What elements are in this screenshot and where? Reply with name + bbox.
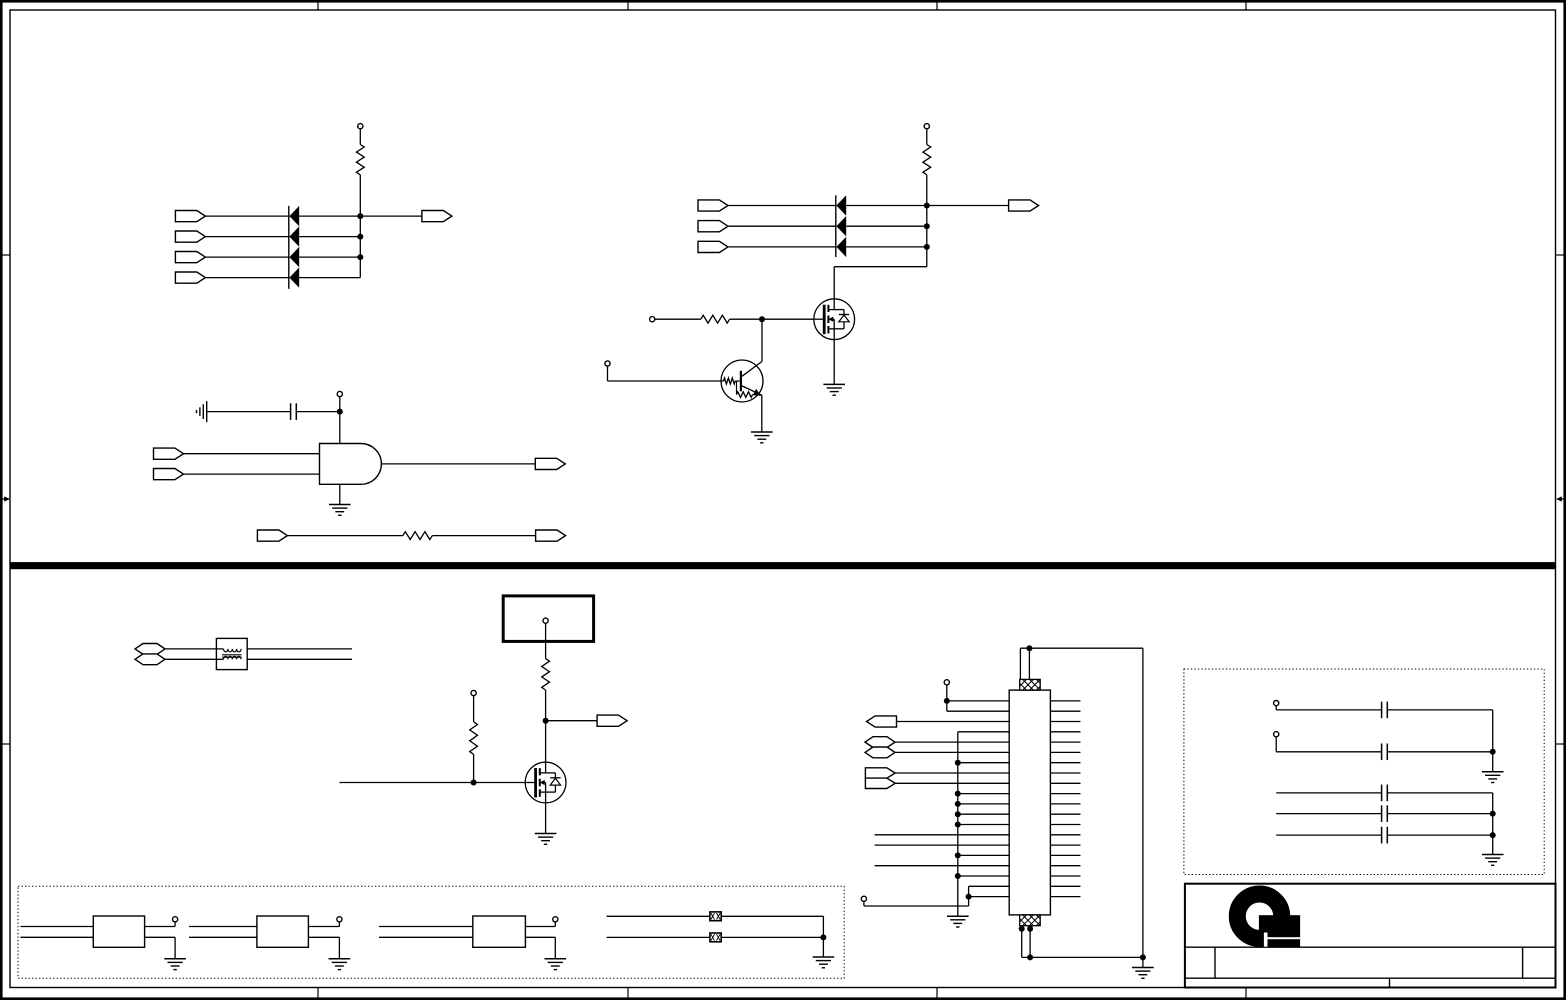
output port P9 [1009,200,1039,211]
wire gate pin to R3 [655,318,701,320]
junction bus pin7 [955,760,961,766]
wire bus to J1 pin7 [958,762,1009,764]
input port P1 [175,211,205,222]
wire bus to J1 pin4 [958,731,1009,733]
company logo [1237,894,1300,947]
wire shield bottom left lead [1021,926,1023,958]
dotted group box (caps) [1184,669,1544,875]
diode D3 [289,247,299,267]
output port P5 [422,211,452,222]
wire NET1 vertical bus [359,175,361,278]
output port P22 [865,778,895,788]
ground Q3 source [535,834,557,845]
resistor R2 power pin [924,124,929,129]
filter block FL1 [93,916,144,947]
wire C6 right [1387,834,1492,836]
wire NET2 to Q1 drain [833,267,835,299]
border zone tick left y744 [0,743,10,745]
junction C2-C3 gnd [1490,749,1496,755]
transistor Q2 (digital NPN) [721,360,763,402]
transistor Q1 (NMOS) [814,299,855,340]
wire shield right vertical [1142,648,1144,967]
pin of C3 [1274,732,1279,737]
junction shield bottom left [1019,926,1025,932]
wire U1 output [381,463,535,465]
diode D1 [289,206,299,226]
wire VCC node to U1 power [339,412,341,444]
border center arrow right [1556,496,1566,501]
input port P8 [698,241,728,252]
border zone tick top x628 [627,0,629,10]
AND gate U1 [320,444,382,485]
resistor R4 [403,532,433,540]
junction bus pin13 [955,822,961,828]
wire D1 to node NET1 [299,215,360,217]
connector J1 shield tab bottom [1009,915,1061,926]
border zone tick bottom x937 [936,988,938,1000]
junction NET2 dot 1 [924,203,930,209]
wire shield bottom right lead [1029,926,1031,958]
wire FL1 out B [145,936,176,938]
wire R5 to node NET3 [545,690,547,721]
input port P10 [154,448,184,459]
wire D4 to corner [299,277,360,279]
dotted group box (filters) [18,886,844,978]
wire Q2 base [608,380,724,382]
net tie NT2 [710,933,721,942]
wire pin1 stub [946,685,948,711]
wire NET1 to output port [360,215,422,217]
junction NT node [820,934,826,940]
capacitor C2 [1382,702,1388,719]
output port P21 [865,768,895,778]
ground FL3 [545,959,567,970]
bidirectional port P16 [135,654,165,665]
junction bus pin11 [955,801,961,807]
border zone tick top x1246 [1245,0,1247,10]
diode D6 [836,216,846,236]
input port P13 [257,530,287,541]
wire NET2 corner horizontal [834,266,927,268]
wire U1 ground pin [339,484,341,504]
pin header pin1 circle [944,680,949,685]
input port P6 [698,200,728,211]
wire FL1 out A [145,926,176,928]
ground shield [1132,968,1154,979]
wire FL2 out B [308,936,339,938]
wire P16 to L1 [165,658,224,660]
net tie NT1 [710,912,721,921]
wire bus to J1 pin10 [958,793,1009,795]
wire NT line B [607,936,824,938]
filter block FL3 [473,916,526,947]
ground C1 (rotated) [197,401,207,422]
wire signal to J1 pin17 [875,865,1010,867]
junction gate node [759,316,765,322]
wire signal to J1 pin15 [875,844,1010,846]
connector J1 shield tab top [1009,679,1061,690]
wire P7 to diode D6 [728,225,836,227]
wire VCC pin stub [339,397,341,412]
junction shield top [1026,645,1032,651]
wire Q2 base pin stub [607,366,609,381]
junction bus pin10 [955,791,961,797]
bidirectional port P15 [135,644,165,655]
wire shield top run [1020,647,1143,649]
wire FL3 to ground [554,937,556,959]
wire bus to J1 pin16 [958,854,1009,856]
wire Q3 source to ground [545,803,547,834]
wire FL3 out B [525,936,555,938]
ground C4-C6 [1482,855,1504,866]
wire C4-C6 gnd bus [1492,793,1494,855]
wire L1 out B [247,658,352,660]
junction Q3 gate node [471,780,477,786]
wire FL1 in B [21,936,94,938]
resistor R5 [542,659,550,690]
wire P8 to diode D7 [728,246,836,248]
resistor R1 power pin [358,124,363,129]
diode D7 [836,237,846,257]
wire NET2 vertical bus [926,175,928,267]
junction VCC node [337,409,343,415]
wire pin19 elbow [968,886,970,906]
wire NET3 to Q3 drain [545,721,547,762]
wire P20 to J1 [895,751,1009,753]
resistor R1 [356,145,364,175]
wire NET2 to output port [927,205,1009,207]
wire caps gnd lead [1492,752,1494,772]
junction bus pin12 [955,811,961,817]
wire pin19 to J1 [969,885,1010,887]
wire FL1 to ground [174,937,176,959]
junction NET2 dot 2 [924,223,930,229]
border zone tick top x318 [317,0,319,10]
border zone tick right y255 [1556,254,1566,256]
base input pin of Q2 [605,361,610,366]
wire C2 left [1276,709,1381,711]
wire FL2 in B [189,936,257,938]
bidirectional port P20 [865,747,895,758]
connector J1 body [1009,690,1050,915]
wire NET3 to output port [546,720,598,722]
wire shield bottom run [1022,956,1143,958]
wire C1 left lead [207,411,291,413]
wire L1 out A [247,648,352,650]
wire C5 right [1387,813,1492,815]
wire FL2 pin stub [338,922,340,927]
wire P6 to diode D5 [728,205,836,207]
ground U1 [329,505,351,516]
wire P22 to J1 [895,782,1009,784]
ground Q2 emitter [751,432,773,443]
wire shield tab right lead [1028,648,1030,679]
junction NET1 dot 1 [357,213,363,219]
wire C1 to VCC node [296,411,340,413]
gate input pin of Q1 [650,317,655,322]
border zone tick bottom x628 [627,988,629,1000]
wire GND bus [957,732,959,916]
wire FL2 in A [189,926,257,928]
pin of module M1 [543,618,548,623]
pin of C2 [1274,701,1279,706]
wire P19 to J1 [895,741,1009,743]
wire bus to J1 pin11 [958,803,1009,805]
junction shield bottom right [1027,926,1033,932]
wire C3 pin stub [1275,737,1277,752]
wire C6 left [1276,834,1381,836]
junction NET2 dot 3 [924,244,930,250]
border zone tick top x937 [936,0,938,10]
output port P14 [536,530,566,541]
ground FL1 [164,959,186,970]
junction bus pin18 [955,873,961,879]
junction pin20 [966,894,972,900]
input port P7 [698,221,728,232]
wire C3 right [1387,751,1492,753]
wire pin2 to J1 [947,710,1009,712]
diode array D5-D7 cathode bar [835,195,837,257]
filter block FL2 [257,916,309,947]
wire Q2 emitter to ground [761,395,763,432]
wire pin1 to J1 [947,700,1009,702]
input port P3 [175,252,205,263]
ground J1 bus [947,916,969,927]
wire P21 to J1 [895,772,1009,774]
wire P4 to diode D4 [205,277,289,279]
wire pin20 run [864,905,969,907]
junction bus pin16 [955,852,961,858]
wire FL2 to ground [338,937,340,959]
junction NET3 [543,718,549,724]
pin of FL3 [553,917,558,922]
wire D2 to node NET1 [299,236,360,238]
capacitor C4 [1382,785,1388,802]
pin of FL2 [337,917,342,922]
wire C4 left [1276,792,1381,794]
wire C4 right [1387,792,1492,794]
border zone tick bottom x1246 [1245,988,1247,1000]
wire M1 pin to R5 [545,623,547,658]
junction shield ground node [1140,954,1146,960]
junction pin1 [944,698,950,704]
wire NT line A [607,915,824,917]
J1 right pin stubs [1050,701,1080,897]
wire NT corner [822,916,824,937]
wire bus to J1 pin13 [958,824,1009,826]
capacitor C6 [1382,827,1388,844]
wire R6 to gate node [473,754,475,782]
diode D4 [289,267,299,287]
capacitor C1 [291,403,297,420]
wire bus to J1 pin18 [958,875,1009,877]
input port P4 [175,272,205,283]
border zone tick bottom x318 [317,988,319,1000]
wire shield tab left lead [1019,648,1021,679]
junction C5 gnd [1490,811,1496,817]
wire NT to ground [822,937,824,957]
wire P13 to R4 [287,535,402,537]
junction shield bottom run [1027,954,1033,960]
pin of FL1 [173,917,178,922]
wire D5 to node NET2 [846,205,927,207]
wire C5 left [1276,813,1381,815]
title block [1185,884,1556,988]
wire R4 to output port [432,535,535,537]
wire bus to J1 pin12 [958,813,1009,815]
wire D7 to node NET2 [846,246,927,248]
thick section divider bar [10,562,1556,569]
wire C3 left [1276,751,1381,753]
junction NET1 dot 3 [357,254,363,260]
ground C2-C3 [1482,772,1504,783]
capacitor C5 [1382,805,1388,822]
wire P18 to J1 [897,721,1010,723]
output port P18 (left) [867,716,897,727]
junction C6 gnd [1490,832,1496,838]
capacitor C3 [1382,744,1388,761]
wire P10 to U1 input A [184,453,320,455]
wire P15 to L1 [165,648,224,650]
wire Q1 source to ground [833,340,835,385]
wire FL1 in A [21,926,94,928]
wire Q3 gate line [340,782,526,784]
output port P17 [597,715,627,726]
ground Q1 source [823,384,845,395]
border zone tick left y255 [0,254,10,256]
diode D5 [836,195,846,215]
resistor R3 [701,315,730,323]
bidirectional port P19 [865,737,895,748]
wire P2 to diode D2 [205,236,289,238]
wire signal to J1 pin14 [875,834,1010,836]
wire C2 to gnd node [1492,710,1494,752]
wire P1 to diode D1 [205,215,289,217]
diode array D1-D4 cathode bar [288,206,290,289]
wire P11 to U1 input B [184,473,320,475]
junction NET1 dot 2 [357,234,363,240]
wire C2 pin stub [1275,706,1277,710]
border zone tick right y744 [1556,743,1566,745]
module box M1 [503,596,593,642]
ground FL2 [329,959,351,970]
wire R3 to Q1 gate [730,318,814,320]
wire D6 to node NET2 [846,225,927,227]
input port P11 [154,469,184,480]
resistor R2 [923,145,931,175]
wire pin20 stub [863,901,865,906]
wire FL2 out A [308,926,339,928]
wire R6 top lead [473,696,475,722]
border center arrow left [0,496,10,501]
wire FL1 pin stub [174,922,176,927]
input port P2 [175,231,205,242]
wire pin20 to J1 [969,896,1010,898]
wire FL3 out A [525,926,555,928]
pin header pin20 circle [861,896,866,901]
wire P3 to diode D3 [205,256,289,258]
wire R2 top lead [926,129,928,145]
wire FL3 in B [379,936,473,938]
power pin VCC of U1 [337,391,342,396]
wire FL3 pin stub [554,922,556,927]
resistor R6 [470,722,478,755]
wire D3 to node NET1 [299,256,360,258]
ground NT [813,957,835,968]
wire gate node to Q2 collector [761,319,763,361]
pull-up pin of R6 [471,690,476,695]
wire C2 right [1387,709,1492,711]
output port P12 [535,458,565,469]
wire R1 top lead [359,129,361,145]
diode D2 [289,226,299,246]
transistor Q3 (NMOS) [525,762,566,803]
wire FL3 in A [379,926,473,928]
choke L1 [216,638,247,669]
